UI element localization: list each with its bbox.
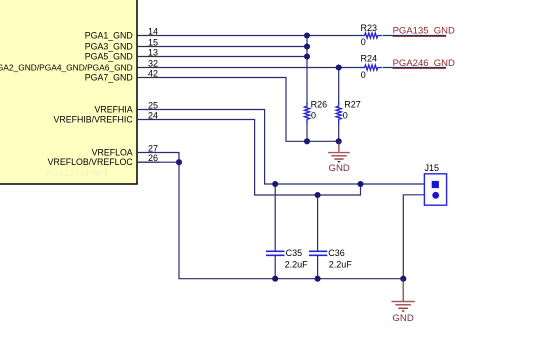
svg-text:27: 27 <box>148 143 158 153</box>
capacitor C35 <box>266 184 308 279</box>
svg-text:PGA3_GND: PGA3_GND <box>85 41 133 51</box>
svg-text:0: 0 <box>361 70 366 80</box>
svg-text:26: 26 <box>148 153 158 163</box>
svg-text:15: 15 <box>148 37 158 47</box>
svg-text:VREFLOB/VREFLOC: VREFLOB/VREFLOC <box>48 157 134 167</box>
svg-text:0: 0 <box>361 37 366 47</box>
junction node at 360.5/184 <box>357 181 363 187</box>
junction R26 bottom <box>304 138 310 144</box>
junction VREFLOA/VREFLOB join <box>176 159 182 165</box>
svg-text:C36: C36 <box>328 248 345 258</box>
wire pin15 to bus <box>137 46 307 48</box>
svg-text:GND: GND <box>329 163 350 174</box>
wire R24 to net PGA246_GND <box>383 67 447 69</box>
junction pin32/R27 <box>336 64 342 70</box>
wire R27 vertical upper <box>338 68 340 104</box>
svg-text:42: 42 <box>148 68 158 78</box>
svg-text:32: 32 <box>148 58 158 68</box>
junction pin14/bus <box>304 32 310 38</box>
svg-text:2.2uF: 2.2uF <box>285 259 309 269</box>
svg-text:R27: R27 <box>344 100 361 110</box>
junction pin15/bus <box>304 43 310 49</box>
ground GND1 <box>328 141 350 174</box>
wire pin26 / VREFLO vertical <box>137 162 403 279</box>
svg-text:R24: R24 <box>361 54 378 64</box>
wire pin27 down <box>137 153 179 163</box>
svg-text:ADS1274IPAPT: ADS1274IPAPT <box>46 168 109 178</box>
wire pin42 down to R26/R27 bottom rail <box>137 78 339 142</box>
svg-text:GND: GND <box>392 313 413 324</box>
resistor R26 <box>304 100 327 123</box>
resistor R24 <box>361 54 382 81</box>
wire R27 vertical lower <box>338 121 340 141</box>
svg-text:R26: R26 <box>311 100 328 110</box>
svg-text:PGA2_GND/PGA4_GND/PGA6_GND: PGA2_GND/PGA4_GND/PGA6_GND <box>0 62 133 72</box>
IC block <box>0 0 137 184</box>
junction C35 top <box>272 181 278 187</box>
wire pin32 to R24 <box>137 67 362 69</box>
svg-text:PGA135_GND: PGA135_GND <box>393 26 455 37</box>
wire pin25 to J15 pin1 <box>137 110 432 185</box>
svg-text:PGA7_GND: PGA7_GND <box>85 72 133 82</box>
wire bus vertical upper <box>306 36 308 104</box>
svg-text:PGA1_GND: PGA1_GND <box>85 30 133 40</box>
net label underline PGA135_GND <box>393 35 446 37</box>
wire pin14 to R23 <box>137 35 362 37</box>
resistor R27 <box>336 100 361 123</box>
svg-text:24: 24 <box>148 110 158 120</box>
svg-text:R23: R23 <box>361 23 378 33</box>
wire R23 to net PGA135_GND <box>383 35 447 37</box>
connector J15 <box>424 163 446 205</box>
ground GND2 <box>392 279 415 324</box>
wire J15 pin2 to GND <box>403 195 432 279</box>
svg-text:13: 13 <box>148 47 158 57</box>
svg-text:J15: J15 <box>425 163 440 173</box>
svg-text:PGA246_GND: PGA246_GND <box>393 58 455 69</box>
svg-text:25: 25 <box>148 100 158 110</box>
junction C36 top <box>315 192 321 198</box>
pin stubs <box>137 36 160 163</box>
junction GND rail bottom <box>400 276 406 282</box>
svg-text:VREFHIA: VREFHIA <box>95 104 133 114</box>
junction pin13/bus <box>304 53 310 59</box>
svg-text:14: 14 <box>148 26 158 36</box>
svg-text:0: 0 <box>343 110 348 120</box>
resistor R23 <box>361 23 382 47</box>
wire pin13 to bus <box>137 56 307 58</box>
junction C35 bottom <box>272 276 278 282</box>
capacitor C36 <box>309 195 352 279</box>
junction R27 bottom <box>336 138 342 144</box>
wire pin24 to node at 360.5 <box>137 120 361 196</box>
svg-text:VREFLOA: VREFLOA <box>92 147 133 157</box>
svg-text:C35: C35 <box>286 248 303 258</box>
net label underline PGA246_GND <box>393 67 446 69</box>
svg-text:VREFHIB/VREFHIC: VREFHIB/VREFHIC <box>54 114 134 124</box>
svg-text:PGA5_GND: PGA5_GND <box>85 51 133 61</box>
svg-text:2.2uF: 2.2uF <box>329 259 353 269</box>
svg-text:0: 0 <box>311 110 316 120</box>
wire bus vertical lower <box>306 121 308 141</box>
junction C36 bottom <box>315 276 321 282</box>
